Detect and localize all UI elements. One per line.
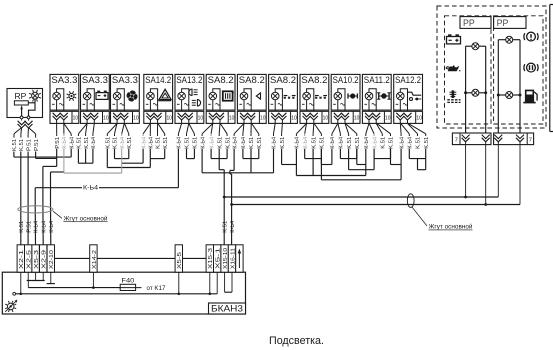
svg-text:K.51: K.51 (249, 137, 255, 149)
pin bus wire (25, 257, 207, 259)
wire jog (282, 149, 297, 165)
switch SA12.2 wire fan (400, 123, 425, 134)
gauge cluster left dashed box (445, 16, 492, 124)
svg-text:K.51: K.51 (113, 137, 119, 149)
wire jog (418, 159, 426, 170)
wire jog (349, 149, 375, 170)
wire label К-Ь4 (232, 134, 238, 149)
svg-text:P.51: P.51 (26, 139, 32, 151)
svg-text:SA8.2: SA8.2 (208, 75, 234, 85)
connector pin X5-1 (214, 245, 222, 272)
switch SA8.2 title (301, 75, 327, 85)
switch SA8.2 title (239, 75, 265, 85)
connector pin X5-5 (175, 245, 183, 272)
switch SA3.3 lamp wires (87, 89, 94, 112)
switch SA8.2 polarity marks (239, 103, 251, 105)
svg-text:10: 10 (291, 115, 297, 121)
switch SA12.2 title (395, 75, 421, 85)
svg-text:PP: PP (463, 18, 475, 28)
connector pin X2-9 (40, 245, 48, 272)
wire label К-Ь4 (91, 134, 97, 149)
switch SA3.3 wire fan (107, 123, 129, 134)
switch SA8.2 connector chevrons (209, 113, 224, 124)
wire K.51 to instrument panel (223, 196, 499, 199)
wire label K.51 (311, 134, 317, 149)
svg-text:К-Ь4: К-Ь4 (272, 137, 278, 149)
wire to pin X2-10 (51, 172, 65, 206)
svg-text:K.51: K.51 (280, 137, 286, 149)
ground bar pins X2-5 X5-3 X2-9 (27, 272, 45, 280)
switch SA3.3 wire fan (57, 123, 72, 133)
switch SA8.2 pin count 10 (229, 115, 235, 121)
svg-text:K.51: K.51 (19, 221, 25, 233)
svg-text:К-Ь4: К-Ь4 (49, 221, 55, 233)
wire label К-Ь4 (339, 134, 345, 149)
wire jog (305, 149, 322, 159)
switch SA10.2 polarity marks (333, 103, 345, 105)
svg-text:10: 10 (103, 115, 109, 121)
switch SA10.2 (block 10) body (331, 74, 360, 110)
svg-text:К-Ь4: К-Ь4 (399, 137, 405, 149)
switch SA8.2 illumination lamp (303, 92, 311, 100)
switch SA14.2 lamp wires (150, 89, 157, 112)
wire fan below RP (14, 128, 36, 134)
switch SA8.2 lamp wires (244, 89, 251, 112)
switch SA8.2 pin count 10 (291, 115, 297, 121)
wire label К-Ь4 (330, 134, 336, 149)
switch SA11.2 wire fan (366, 123, 391, 134)
svg-text:SA8.2: SA8.2 (239, 75, 265, 85)
wire jog (187, 149, 195, 159)
wire jog (243, 149, 259, 159)
svg-text:K.51: K.51 (185, 137, 191, 149)
switch SA13.2 wire fan (178, 123, 194, 133)
svg-text:К-Ь4: К-Ь4 (408, 137, 414, 149)
switch SA3.3 connector chevrons (113, 113, 128, 124)
gauge cluster right dashed box (494, 16, 543, 124)
switch SA3.3 polarity marks (52, 103, 64, 105)
switch SA8.2 polarity marks (302, 103, 314, 105)
connector pin X16-11 (228, 245, 236, 272)
svg-text:SA13.2: SA13.2 (176, 75, 202, 85)
wire jog (122, 149, 143, 163)
illumination symbol in BKAN3 (5, 300, 17, 312)
switch SA11.2 polarity marks (364, 103, 376, 105)
svg-text:К-Ь4: К-Ь4 (69, 137, 75, 149)
connector pin X5-3 (32, 245, 40, 272)
switch SA8.2 pin count 10 (260, 115, 266, 121)
switch SA8.2 lamp wires (307, 89, 314, 112)
switch SA8.2 connector chevrons (303, 113, 318, 124)
switch SA3.3 lamp wires (57, 89, 64, 112)
label F40 (121, 277, 135, 284)
switch SA3.3 connector row (50, 111, 79, 123)
svg-text:К-Ь4: К-Ь4 (232, 137, 238, 149)
wire label K.51 (77, 134, 83, 149)
switch SA3.3 (block 1) body (50, 74, 79, 110)
switch SA3.3 (block 3) body (111, 74, 140, 110)
svg-text:SA12.2: SA12.2 (395, 75, 421, 85)
wire label P.51 (55, 134, 61, 149)
wire label P.51 (26, 134, 32, 151)
svg-text:10: 10 (416, 115, 422, 121)
switch SA10.2 connector row (331, 111, 360, 123)
svg-text:X2-10: X2-10 (49, 250, 55, 269)
switch SA3.3 (block 2) body (81, 74, 110, 110)
switch SA10.2 lamp wires (338, 89, 345, 112)
svg-text:P.51: P.51 (26, 221, 32, 233)
svg-text:К-Ь4: К-Ь4 (303, 137, 309, 149)
coolant temperature icon (447, 90, 460, 102)
switch SA10.2 icon (348, 93, 357, 98)
svg-text:P.51: P.51 (55, 137, 61, 149)
panel connector right (494, 133, 534, 145)
switch SA11.2 connector row (362, 111, 391, 123)
fuse F40 (118, 284, 142, 290)
svg-text:P.51: P.51 (34, 139, 40, 151)
connector pin X2-1 (17, 245, 25, 272)
wire label К-Ь4 (295, 134, 301, 149)
switch SA10.2 illumination lamp (334, 92, 342, 100)
switch SA3.3 polarity marks (83, 103, 95, 105)
svg-text:K.51: K.51 (320, 137, 326, 149)
leader line to harness label right (412, 207, 427, 226)
switch SA8.2 wire fan (202, 123, 227, 134)
svg-text:RP: RP (15, 91, 27, 101)
switch SA11.2 (block 11) body (362, 74, 391, 110)
wire jog (211, 149, 227, 159)
wire label К-Ь4 (69, 134, 75, 149)
svg-text:K.51: K.51 (163, 137, 169, 149)
svg-text:K.51: K.51 (416, 137, 422, 149)
svg-text:Подсветка.: Подсветка. (269, 335, 324, 347)
switch SA8.2 (block 8) body (269, 74, 298, 110)
switch SA8.2 title (270, 75, 296, 85)
svg-text:10: 10 (323, 115, 329, 121)
svg-text:К-Ь4: К-Ь4 (34, 221, 40, 233)
rheostat resistor in RP (14, 101, 28, 105)
wire K.51 to pin X2-1 (20, 152, 22, 246)
svg-text:10: 10 (260, 115, 266, 121)
svg-text:K.51: K.51 (77, 137, 83, 149)
wire label K.51 (225, 134, 231, 149)
svg-text:K.51: K.51 (347, 137, 353, 149)
switch SA8.2 icon (223, 91, 234, 100)
switch SA8.2 (block 6) body (206, 74, 235, 110)
oil pressure icon (446, 65, 460, 71)
switch SA3.3 lamp wires (117, 89, 124, 112)
switch SA12.2 pin count 10 (416, 115, 422, 121)
switch SA3.3 icon (126, 90, 138, 102)
switch SA3.3 pin count 10 (73, 115, 79, 121)
svg-text:K.51: K.51 (12, 139, 18, 151)
svg-text:SA8.2: SA8.2 (270, 75, 296, 85)
fuse supply wire (28, 272, 120, 289)
wire label K.51 (106, 134, 112, 149)
wire P.51 to pin X2-5 (27, 152, 29, 246)
switch SA12.2 icon (407, 92, 421, 100)
switch SA3.3 illumination lamp (53, 92, 61, 100)
wire label К-Ь4 (372, 134, 378, 149)
wire label К-Ь4 (34, 221, 40, 233)
wire label К-Ь4 (272, 134, 278, 149)
wire label K.51 (19, 134, 25, 151)
switch SA8.2 illumination lamp (271, 92, 279, 100)
switch SA8.2 wire fan (274, 123, 283, 134)
svg-text:K.51: K.51 (311, 137, 317, 149)
wire label K.51 (416, 134, 422, 149)
printed board PP right (494, 17, 526, 29)
brake warning icon (524, 32, 538, 41)
switch SA13.2 connector chevrons (178, 113, 193, 124)
switch SA13.2 icon (189, 89, 201, 106)
svg-text:X14-2: X14-2 (92, 250, 98, 269)
svg-text:SA3.3: SA3.3 (112, 75, 138, 85)
switch SA13.2 connector row (175, 111, 204, 123)
switch SA3.3 title (51, 75, 77, 85)
harness marker oval (main harness) (18, 206, 53, 213)
wire lamp to terminal 2 (29, 99, 36, 116)
switch SA8.2 lamp wires (213, 89, 220, 112)
svg-text:K.51: K.51 (193, 137, 199, 149)
wire to pin X2-9 (43, 158, 57, 205)
svg-text:К-Ь4: К-Ь4 (330, 137, 336, 149)
switch SA3.3 connector row (111, 111, 140, 123)
wire down to X15-10 (219, 149, 224, 245)
switch SA13.2 pin count 10 (198, 115, 204, 121)
switch SA8.2 connector row (269, 111, 298, 123)
wire label K.51 (156, 134, 162, 149)
switch SA8.2 connector row (206, 111, 235, 123)
panel connector left (452, 133, 491, 145)
svg-text:от K17: от K17 (147, 285, 167, 292)
connector pin X2-5 (25, 245, 33, 272)
wire label K.51 (185, 134, 191, 149)
svg-text:PP: PP (497, 18, 509, 28)
wire jog (391, 149, 402, 165)
panel lamp loop right (497, 36, 522, 133)
svg-text:К-Ь4: К-Ь4 (83, 185, 99, 191)
svg-text:SA3.3: SA3.3 (51, 75, 77, 85)
svg-text:K.51: K.51 (19, 139, 25, 151)
wire label K.51 (19, 221, 25, 233)
switch SA3.3 icon (67, 91, 77, 101)
wire label K.51 (381, 134, 387, 149)
switch SA14.2 (block 4) body (144, 74, 173, 110)
wire label K.51 (113, 134, 119, 149)
switch SA14.2 polarity marks (146, 103, 158, 105)
switch SA14.2 connector row (144, 111, 173, 123)
illumination output wire (13, 272, 217, 295)
wire label К-Ь4 (200, 134, 206, 149)
instrument panel outer dashed box (437, 6, 546, 128)
switch SA8.2 illumination lamp (240, 92, 248, 100)
svg-text:K.51: K.51 (217, 137, 223, 149)
panel connector wires (466, 145, 520, 205)
fuel level icon (523, 90, 537, 103)
illumination lamp symbol in RP (29, 90, 41, 102)
wire label K.51 (217, 134, 223, 149)
switch SA8.2 polarity marks (208, 103, 220, 105)
switch SA12.2 connector row (394, 111, 423, 123)
switch SA3.3 illumination lamp (83, 92, 91, 100)
wire label К-Ь4 (49, 221, 55, 233)
switch SA13.2 title (176, 75, 202, 85)
label RP (15, 91, 27, 101)
svg-text:K.51: K.51 (106, 137, 112, 149)
terminal 1 of RP (20, 116, 23, 119)
switch SA13.2 polarity marks (177, 103, 189, 105)
rheostat unit RP box (7, 89, 43, 118)
svg-text:SA8.2: SA8.2 (301, 75, 327, 85)
svg-text:K.51: K.51 (84, 137, 90, 149)
wire jog (321, 149, 332, 165)
battery warning icon (447, 34, 461, 44)
svg-text:10: 10 (166, 115, 172, 121)
wire label P.51 (34, 134, 40, 151)
rheostat wiper arrow (20, 105, 22, 116)
svg-text:SA3.3: SA3.3 (82, 75, 108, 85)
switch SA14.2 illumination lamp (147, 92, 155, 100)
wire jog (340, 149, 356, 159)
wire label K.51 (280, 134, 286, 149)
label ot K17 (147, 285, 167, 292)
switch SA12.2 connector chevrons (396, 113, 411, 124)
wire label K.51 (320, 134, 326, 149)
switch SA11.2 title (364, 75, 390, 85)
wire resistor tap (28, 102, 35, 104)
wire jog (374, 149, 390, 159)
wire net K.51 horizontal (14, 149, 71, 157)
connector pin X14-2 (90, 245, 98, 272)
switch SA3.3 pin count 10 (103, 115, 109, 121)
switch SA13.2 lamp wires (182, 89, 189, 112)
svg-text:SA14.2: SA14.2 (145, 75, 171, 85)
brake pads icon (524, 63, 538, 72)
ground bar pin X2-10 (47, 272, 55, 283)
wire jog (115, 149, 129, 159)
wire down to X16-11 (230, 149, 234, 245)
svg-text:БКАН3: БКАН3 (211, 304, 243, 314)
harness marker oval right (407, 194, 414, 208)
switch SA8.2 connector chevrons (240, 113, 255, 124)
svg-text:K.51: K.51 (257, 137, 263, 149)
block BKAN3 body (2, 272, 245, 314)
svg-text:X5-5: X5-5 (177, 252, 183, 269)
switch SA3.3 pin count 10 (133, 115, 139, 121)
svg-text:К-Ь4: К-Ь4 (209, 137, 215, 149)
wire label К-Ь4 (209, 134, 215, 149)
switch SA8.2 connector row (237, 111, 266, 123)
wire jog (357, 149, 366, 165)
switch SA3.3 title (112, 75, 138, 85)
caption Podsvetka (269, 335, 324, 347)
wire jog long (296, 149, 365, 176)
switch SA12.2 (block 12) body (394, 74, 423, 110)
switch SA3.3 illumination lamp (113, 92, 121, 100)
switch SA8.2 wire fan (296, 123, 321, 134)
svg-text:K.51: K.51 (225, 137, 231, 149)
switch SA14.2 wire fan (143, 123, 165, 134)
svg-text:К-Ь4: К-Ь4 (141, 137, 147, 149)
connector pin with output arrow (236, 245, 243, 272)
wire label К-Ь4 (120, 134, 126, 149)
svg-text:10: 10 (229, 115, 235, 121)
svg-text:10: 10 (385, 115, 391, 121)
switch SA8.2 (block 9) body (300, 74, 329, 110)
wire label K.51 (127, 134, 133, 149)
svg-text:F40: F40 (121, 277, 135, 284)
leader line to harness label (53, 211, 62, 218)
switch SA10.2 connector chevrons (334, 113, 349, 124)
switch SA3.3 polarity marks (113, 103, 125, 105)
switch SA11.2 lamp wires (369, 89, 376, 112)
wire label К-Ь4 (364, 134, 370, 149)
panel lamp loop left (464, 43, 487, 133)
switch SA8.2 (block 7) body (237, 74, 266, 110)
switch SA14.2 pin count 10 (166, 115, 172, 121)
connector chevrons below RP (18, 119, 33, 128)
wire K-b4 continuation to X2-9, X2-10, X5-3 (35, 206, 51, 246)
wire label К-Ь4 (230, 221, 236, 233)
svg-text:К-Ь4: К-Ь4 (230, 221, 236, 233)
switch SA13.2 (block 5) body (175, 74, 204, 110)
wire label K.51 (355, 134, 361, 149)
wire label К-Ь4 (62, 134, 68, 149)
label main harness right (429, 223, 473, 231)
switch SA8.2 connector row (300, 111, 329, 123)
wire label K.51 (222, 221, 228, 233)
svg-text:K.51: K.51 (389, 137, 395, 149)
switch SA13.2 illumination lamp (178, 92, 186, 100)
switch SA10.2 title (333, 75, 359, 85)
svg-text:К-Ь4: К-Ь4 (120, 137, 126, 149)
svg-text:К-Ь4: К-Ь4 (372, 137, 378, 149)
switch SA8.2 connector chevrons (271, 113, 286, 124)
svg-text:7: 7 (529, 137, 532, 143)
switch SA3.3 title (82, 75, 108, 85)
label BKAN3 (209, 303, 246, 314)
wire jog (150, 149, 164, 159)
switch SA10.2 pin count 10 (354, 115, 360, 121)
wire label К-Ь4 (408, 134, 414, 149)
wire jog long (321, 159, 401, 180)
wire label К-Ь4 (303, 134, 309, 149)
switch SA8.2 title (208, 75, 234, 85)
switch SA8.2 polarity marks (271, 103, 283, 105)
switch SA14.2 connector chevrons (146, 113, 161, 124)
wire jog (409, 149, 425, 159)
cut-off frame bracket right edge (550, 5, 553, 132)
switch SA12.2 lamp wires (400, 89, 407, 112)
svg-text:SA11.2: SA11.2 (364, 75, 390, 85)
switch SA12.2 polarity marks (396, 103, 408, 105)
svg-text:К-Ь4: К-Ь4 (339, 137, 345, 149)
wire label K.51 (347, 134, 353, 149)
svg-text:K.51: K.51 (381, 137, 387, 149)
switch SA8.2 wire fan (234, 123, 259, 134)
wire jog long (202, 149, 273, 173)
svg-text:K.51: K.51 (424, 137, 430, 149)
wire label K.51 (389, 134, 395, 149)
wire label K.51 (12, 134, 18, 151)
svg-text:К-Ь4: К-Ь4 (149, 137, 155, 149)
switch SA3.3 wire fan (78, 123, 94, 134)
switch SA8.2 icon (256, 93, 260, 99)
wire label K.51 (249, 134, 255, 149)
svg-text:К-Ь4: К-Ь4 (200, 137, 206, 149)
ground pins X15-10 X16-11 (225, 272, 232, 292)
